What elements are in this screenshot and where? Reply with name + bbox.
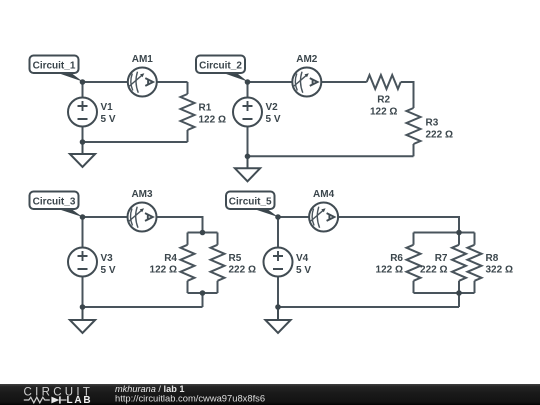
wire V2 branch	[247, 82, 249, 156]
ground circuit 2	[235, 156, 260, 181]
node parallel bottom junction circuit 3	[200, 290, 206, 296]
voltage source V4	[264, 248, 312, 277]
wire parallel top bar circuit 3	[188, 232, 218, 234]
footer credit line	[115, 384, 265, 403]
ground circuit 1	[70, 142, 95, 167]
wire bottom rail circuit 1	[83, 141, 188, 143]
node ground 1 junction dot	[80, 139, 86, 145]
resistor R3 value label	[426, 118, 453, 141]
node parallel bottom junction circuit 5	[456, 290, 462, 296]
resistor R7 value label	[420, 253, 448, 276]
svg-text:LAB: LAB	[67, 395, 93, 405]
ground circuit 3	[70, 307, 95, 333]
svg-text:V1: V1	[101, 102, 114, 113]
node label Circuit_2	[196, 56, 248, 82]
resistor R6 value label	[376, 253, 404, 276]
svg-text:Circuit_5: Circuit_5	[229, 196, 272, 207]
ammeter AM3	[128, 189, 157, 232]
wire top rail circuit 2	[248, 81, 367, 83]
node parallel top junction circuit 5	[456, 230, 462, 236]
wire bottom rail circuit 5	[278, 306, 459, 308]
wire R2 to R3 corner	[401, 82, 414, 108]
resistor R6 leads	[413, 233, 415, 245]
svg-text:V3: V3	[101, 253, 114, 264]
svg-text:222 Ω: 222 Ω	[229, 265, 256, 276]
ammeter AM2	[292, 54, 321, 97]
ammeter AM4	[309, 189, 338, 232]
svg-text:5 V: 5 V	[101, 114, 116, 125]
resistor R8 value label	[486, 253, 513, 276]
svg-text:Circuit_1: Circuit_1	[33, 60, 76, 71]
svg-text:http://circuitlab.com/cwwa97u8: http://circuitlab.com/cwwa97u8x8fs6	[115, 393, 265, 404]
wire parallel top bar circuit 5	[414, 232, 475, 234]
resistor R5 leads	[217, 233, 219, 245]
wire V1 branch	[82, 82, 84, 142]
svg-text:R3: R3	[426, 118, 439, 129]
voltage source V3	[68, 248, 116, 277]
svg-text:AM3: AM3	[131, 189, 153, 200]
ground circuit 5	[265, 307, 290, 333]
wire top rail circuit 1	[83, 81, 188, 83]
resistor R1 value label	[199, 103, 226, 126]
svg-text:AM2: AM2	[296, 54, 318, 65]
svg-text:R1: R1	[199, 103, 212, 114]
wire V3 branch	[82, 217, 84, 307]
svg-text:222 Ω: 222 Ω	[420, 265, 447, 276]
resistor R4 value label	[150, 253, 178, 276]
wire top rail circuit 5	[278, 217, 459, 233]
resistor R8 zigzag	[468, 245, 482, 281]
footer bar	[0, 384, 540, 405]
voltage source V2	[233, 98, 281, 127]
ammeter AM1	[128, 54, 157, 97]
svg-text:5 V: 5 V	[101, 265, 116, 276]
resistor R5 zigzag	[211, 245, 225, 281]
resistor R8 leads	[474, 233, 476, 245]
resistor R7 leads	[458, 233, 460, 245]
svg-text:122 Ω: 122 Ω	[370, 107, 397, 118]
svg-text:5 V: 5 V	[296, 265, 311, 276]
node A2 junction dot	[245, 79, 251, 85]
svg-text:R4: R4	[164, 253, 177, 264]
voltage source V1	[68, 98, 116, 127]
svg-text:5 V: 5 V	[266, 114, 281, 125]
svg-text:Circuit_3: Circuit_3	[33, 196, 76, 207]
node A5 junction dot	[275, 214, 281, 220]
svg-text:322 Ω: 322 Ω	[486, 265, 513, 276]
node label Circuit_1	[30, 56, 83, 82]
wire R1 branch verticals	[187, 82, 189, 94]
wire from bottom bar to bottom rail circuit 3	[202, 293, 204, 307]
wire parallel bottom bar circuit 3	[188, 292, 218, 294]
wire parallel bottom bar circuit 5	[414, 292, 475, 294]
wire R3 lower lead	[413, 144, 415, 156]
resistor R4 zigzag	[181, 245, 195, 281]
wire V4 branch	[277, 217, 279, 307]
svg-text:122 Ω: 122 Ω	[150, 265, 177, 276]
CircuitLab logo wordmark	[24, 386, 94, 405]
svg-text:Circuit_2: Circuit_2	[199, 60, 242, 71]
node label Circuit_5	[226, 192, 278, 218]
wire bottom rail circuit 2	[248, 155, 414, 157]
svg-text:AM4: AM4	[313, 189, 335, 200]
resistor R2 value label	[370, 95, 397, 118]
node ground 3 junction dot	[80, 304, 86, 310]
node parallel top junction circuit 3	[200, 230, 206, 236]
resistor R1 zigzag	[181, 94, 195, 130]
resistor R3 zigzag	[407, 108, 421, 144]
svg-text:R2: R2	[377, 95, 390, 106]
svg-text:V4: V4	[296, 253, 309, 264]
node ground 5 junction dot	[275, 304, 281, 310]
svg-text:R7: R7	[435, 253, 448, 264]
node A1 junction dot	[80, 79, 86, 85]
wire bottom rail circuit 3	[83, 306, 203, 308]
svg-text:R8: R8	[486, 253, 499, 264]
svg-text:122 Ω: 122 Ω	[199, 115, 226, 126]
resistor R2 zigzag	[367, 75, 401, 89]
node ground 2 junction dot	[245, 154, 251, 160]
svg-text:222 Ω: 222 Ω	[426, 130, 453, 141]
wire from bottom bar to bottom rail circuit 5	[458, 293, 460, 307]
svg-text:R5: R5	[229, 253, 242, 264]
node A3 junction dot	[80, 214, 86, 220]
resistor R6 zigzag	[407, 245, 421, 281]
resistor R4 leads	[187, 233, 189, 245]
wire top rail circuit 3	[83, 217, 203, 233]
resistor R7 zigzag	[452, 245, 466, 281]
svg-text:AM1: AM1	[132, 54, 154, 65]
svg-text:V2: V2	[266, 102, 279, 113]
node label Circuit_3	[30, 192, 83, 218]
svg-text:R6: R6	[390, 253, 403, 264]
resistor R5 value label	[229, 253, 256, 276]
svg-text:122 Ω: 122 Ω	[376, 265, 403, 276]
